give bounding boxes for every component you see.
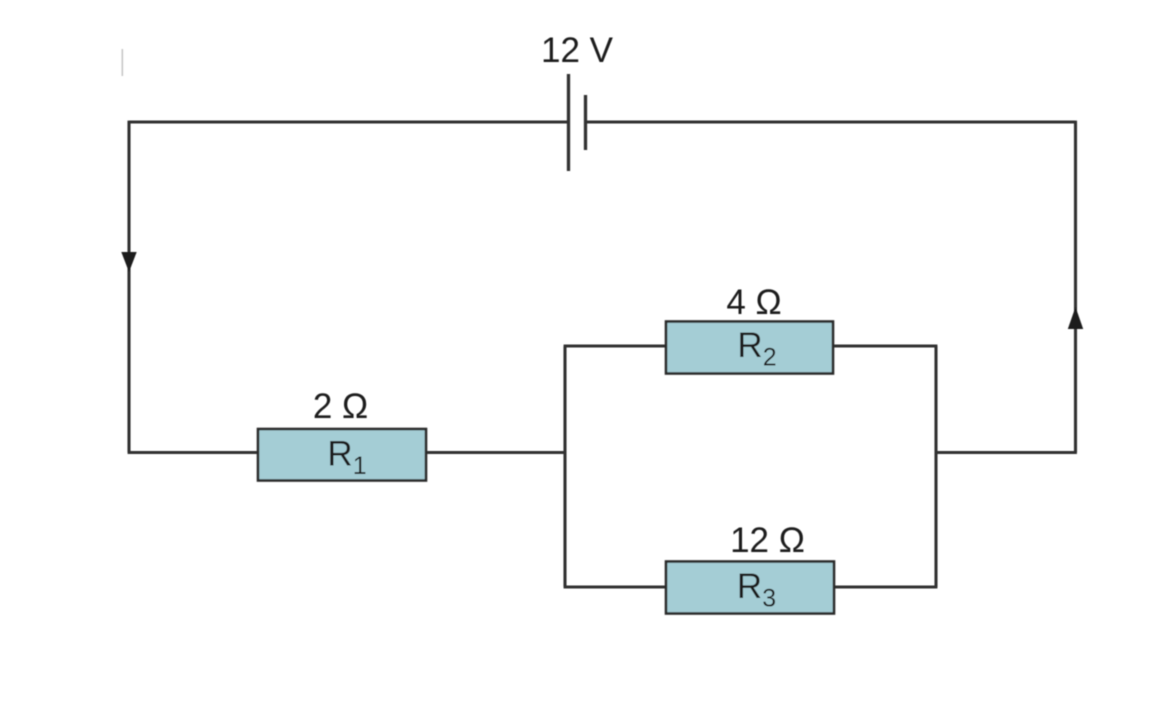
svg-text:4 Ω: 4 Ω [726, 283, 781, 322]
resistor R2 body [666, 322, 833, 374]
stray gray scan mark top-left [121, 49, 123, 76]
battery V1 12 V long plate [567, 74, 570, 171]
resistor R1 body [258, 429, 426, 481]
battery V1 12 V short plate [584, 95, 587, 150]
wire top-left horizontal (battery negative lead) [129, 120, 569, 123]
svg-text:12 Ω: 12 Ω [730, 521, 805, 560]
arrow current direction down on left wire [121, 252, 136, 272]
wire left lead of R3 [564, 585, 667, 588]
arrow current direction up on right wire [1068, 307, 1083, 329]
wire left lead of R2 [564, 344, 667, 347]
wire bottom-left horizontal to R1 [128, 451, 259, 454]
wire right vertical rise [1074, 121, 1077, 453]
wire left vertical drop [127, 121, 130, 453]
wire right lead of R2 [833, 344, 937, 347]
resistor R3 body [666, 562, 834, 614]
wire top-right horizontal (battery positive lead) [586, 120, 1076, 123]
wire right lead of R3 [833, 585, 937, 588]
wire junction to right vertical [935, 451, 1077, 454]
node left junction vertical of parallel pair [563, 346, 566, 587]
svg-text:12 V: 12 V [541, 31, 614, 70]
svg-text:2 Ω: 2 Ω [313, 387, 368, 426]
wire R1 to parallel junction [425, 451, 567, 454]
node right junction vertical of parallel pair [934, 346, 937, 587]
